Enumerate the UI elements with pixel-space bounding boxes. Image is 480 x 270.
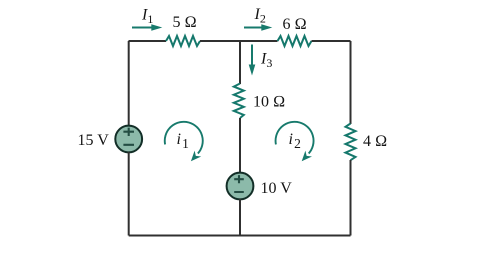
resistor R4 4ohm (346, 124, 356, 161)
wire left lower (128, 152, 130, 236)
voltage source V1 15V (115, 126, 142, 153)
wire top-middle segment (200, 40, 278, 42)
resistor R2 6ohm (278, 36, 312, 46)
wire top-right segment (312, 40, 351, 42)
wire right upper (350, 41, 352, 124)
current arrow I1 (132, 24, 162, 31)
voltage source V2 10V (227, 173, 254, 200)
mesh current loop i1 (165, 122, 203, 161)
current arrow I2 (244, 24, 272, 31)
svg-text:10 Ω: 10 Ω (253, 93, 285, 110)
svg-text:5 Ω: 5 Ω (173, 14, 197, 31)
svg-text:4 Ω: 4 Ω (363, 133, 387, 150)
wire middle between R3 and V2 (239, 118, 241, 173)
wire middle lower (239, 199, 241, 236)
resistor R1 5ohm (166, 36, 200, 46)
wire left upper (128, 41, 130, 126)
resistor R3 10ohm (234, 84, 244, 119)
svg-text:10 V: 10 V (261, 180, 293, 197)
svg-text:6 Ω: 6 Ω (283, 16, 307, 33)
current arrow I3 (249, 45, 256, 76)
svg-text:15 V: 15 V (78, 132, 110, 149)
wire right lower (350, 160, 352, 236)
wire middle upper (239, 41, 241, 84)
wire bottom (129, 235, 351, 237)
mesh current loop i2 (276, 122, 314, 161)
wire top-left segment (129, 40, 167, 42)
